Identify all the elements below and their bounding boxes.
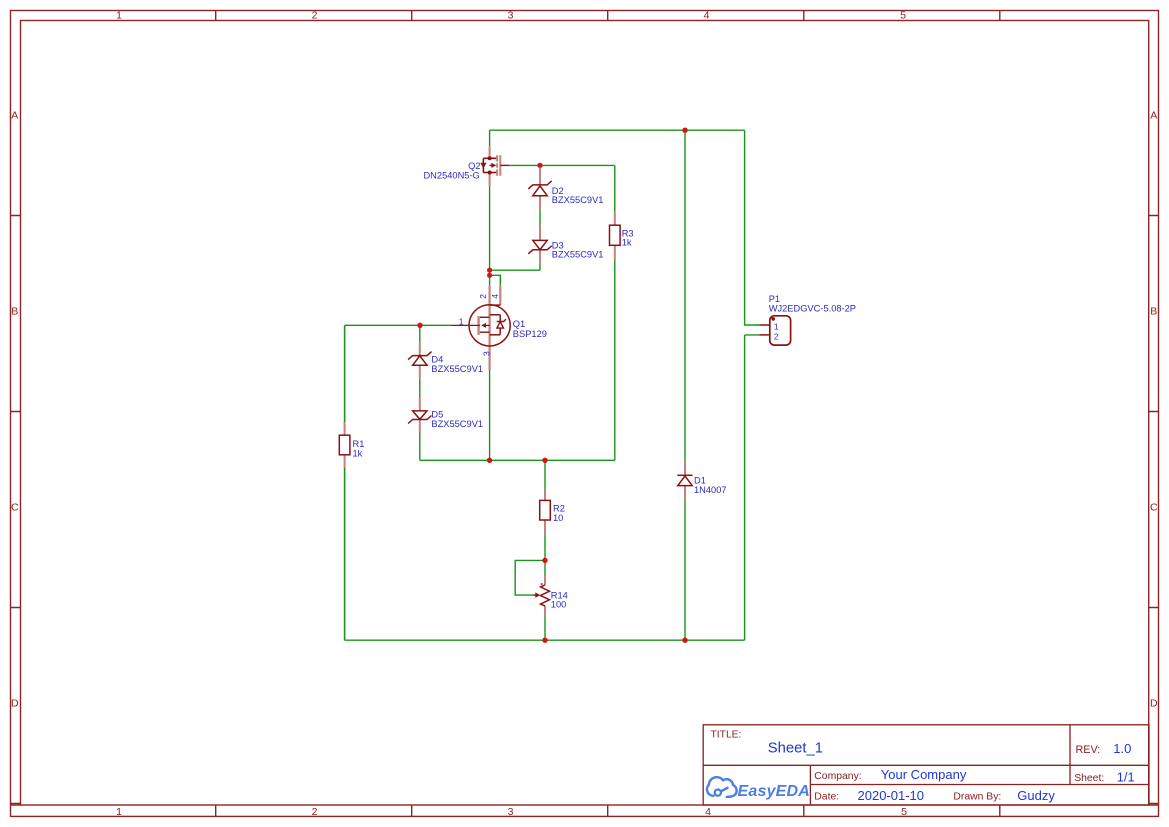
resistor R2 10 xyxy=(540,491,565,533)
svg-text:2: 2 xyxy=(312,10,318,22)
svg-text:1k: 1k xyxy=(622,238,632,248)
junction bottom rail / D1 xyxy=(682,638,687,643)
wire D1 bottom xyxy=(684,500,686,641)
junction gate node / D4 xyxy=(417,323,422,328)
svg-text:1: 1 xyxy=(459,317,464,327)
svg-text:1: 1 xyxy=(774,321,779,331)
svg-text:Date:: Date: xyxy=(814,792,839,803)
wire D3 to Q1 node xyxy=(490,269,540,271)
wire gate node horizontal xyxy=(345,324,451,326)
resistor R3 1k xyxy=(610,212,634,260)
svg-text:BSP129: BSP129 xyxy=(513,329,547,339)
junction bottom rail / R14 xyxy=(542,638,547,643)
junction top rail / D1 xyxy=(682,128,687,133)
zener diode D2 BZX55C9V1 xyxy=(528,168,603,211)
wire right drop to P1 pin1 xyxy=(745,130,760,325)
junction R2-R14 wiper tap xyxy=(542,558,547,563)
svg-text:C: C xyxy=(11,502,19,514)
resistor R1 1k xyxy=(339,422,364,468)
wire R1 bottom xyxy=(344,468,346,641)
svg-text:Q2: Q2 xyxy=(468,161,480,171)
wire source node horizontal xyxy=(509,164,615,166)
svg-text:4: 4 xyxy=(490,294,500,299)
svg-text:5: 5 xyxy=(900,10,906,22)
svg-text:1.0: 1.0 xyxy=(1113,741,1131,756)
svg-text:TITLE:: TITLE: xyxy=(711,729,742,740)
wire D3 bottom xyxy=(539,263,541,270)
svg-text:Drawn By:: Drawn By: xyxy=(953,792,1001,803)
svg-text:WJ2EDGVC-5.08-2P: WJ2EDGVC-5.08-2P xyxy=(769,304,856,314)
svg-text:4: 4 xyxy=(705,806,711,818)
svg-text:Q1: Q1 xyxy=(513,319,525,329)
wire left rail xyxy=(344,325,346,640)
svg-text:D: D xyxy=(11,698,19,710)
svg-text:2: 2 xyxy=(312,806,318,818)
svg-text:4: 4 xyxy=(704,10,710,22)
zener diode D4 BZX55C9V1 xyxy=(408,343,483,379)
svg-text:D: D xyxy=(1150,698,1158,710)
svg-text:Gudzy: Gudzy xyxy=(1017,788,1055,803)
svg-text:R2: R2 xyxy=(553,503,565,513)
diode D1 1N4007 xyxy=(677,462,726,500)
svg-text:Company:: Company: xyxy=(814,771,861,782)
title block xyxy=(703,725,1149,805)
wire R2 to R14 xyxy=(544,533,546,576)
svg-text:REV:: REV: xyxy=(1076,744,1101,756)
wire R14 bottom xyxy=(544,615,546,640)
svg-text:1N4007: 1N4007 xyxy=(694,485,727,495)
connector P1 WJ2EDGVC-5.08-2P xyxy=(760,294,857,345)
wire R3 bottom xyxy=(614,259,616,460)
EasyEDA logo xyxy=(707,777,810,800)
svg-text:3: 3 xyxy=(508,10,514,22)
wire D5 lower xyxy=(419,433,421,461)
svg-text:1: 1 xyxy=(116,806,122,818)
wire P1 pin2 drop xyxy=(745,335,760,640)
svg-text:1k: 1k xyxy=(353,448,363,458)
svg-text:BZX55C9V1: BZX55C9V1 xyxy=(431,364,483,374)
svg-text:Your Company: Your Company xyxy=(881,767,967,782)
wire R14 wiper loop xyxy=(515,560,545,595)
wire D4 upper xyxy=(419,325,421,342)
wire Q2 drain stub xyxy=(489,130,491,146)
junction Q1 drain node upper xyxy=(487,268,492,273)
wire Q2 source to Q1 xyxy=(489,186,491,286)
junction Q1 drain node lower xyxy=(487,273,492,278)
svg-text:3: 3 xyxy=(508,806,514,818)
junction lower node / R2 xyxy=(542,458,547,463)
svg-text:100: 100 xyxy=(551,600,567,610)
svg-text:B: B xyxy=(11,306,18,318)
svg-text:1/1: 1/1 xyxy=(1117,769,1135,784)
wire R1 top xyxy=(344,325,346,422)
svg-text:Sheet:: Sheet: xyxy=(1074,773,1104,784)
wire lower node horizontal xyxy=(420,459,615,461)
svg-text:2020-01-10: 2020-01-10 xyxy=(858,788,925,803)
svg-text:10: 10 xyxy=(553,513,563,523)
wire R3 top xyxy=(614,165,616,211)
svg-text:EasyEDA: EasyEDA xyxy=(738,783,811,800)
wire Q1 source down xyxy=(489,370,491,460)
zener diode D5 BZX55C9V1 xyxy=(408,398,483,432)
zener diode D3 BZX55C9V1 xyxy=(528,226,603,263)
potentiometer R14 100 xyxy=(534,576,568,615)
wire D4-D5 middle xyxy=(419,378,421,398)
wire R2 top xyxy=(544,460,546,490)
svg-text:2: 2 xyxy=(774,332,779,342)
svg-text:D1: D1 xyxy=(694,475,706,485)
svg-text:C: C xyxy=(1150,502,1158,514)
transistor Q2 DN2540N5-G xyxy=(423,146,509,186)
junction source node / D2 xyxy=(537,163,542,168)
wire D2-D3 middle xyxy=(539,210,541,226)
svg-text:DN2540N5-G: DN2540N5-G xyxy=(423,171,479,181)
wire D1 top xyxy=(684,130,686,462)
svg-text:5: 5 xyxy=(901,806,907,818)
svg-text:BZX55C9V1: BZX55C9V1 xyxy=(552,195,604,205)
svg-text:BZX55C9V1: BZX55C9V1 xyxy=(552,250,604,260)
wire bottom rail xyxy=(345,639,745,641)
junction lower node / Q1 source xyxy=(487,458,492,463)
transistor Q1 BSP129 xyxy=(451,286,547,370)
svg-text:2: 2 xyxy=(478,294,488,299)
svg-text:A: A xyxy=(1150,110,1157,122)
svg-text:1: 1 xyxy=(116,10,122,22)
svg-text:BZX55C9V1: BZX55C9V1 xyxy=(431,419,483,429)
wire top rail xyxy=(490,129,745,131)
svg-text:B: B xyxy=(1150,306,1157,318)
svg-text:3: 3 xyxy=(481,351,491,356)
svg-text:A: A xyxy=(11,110,18,122)
svg-text:P1: P1 xyxy=(769,294,780,304)
svg-text:Sheet_1: Sheet_1 xyxy=(768,741,823,757)
wire Q1 pin4 branch xyxy=(490,275,501,286)
